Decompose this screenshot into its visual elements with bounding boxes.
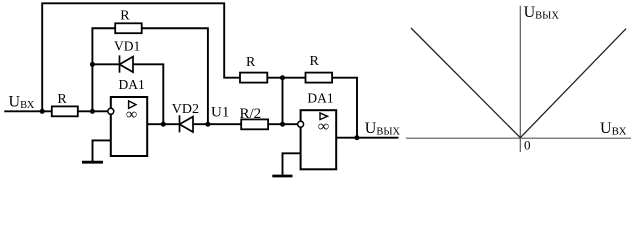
graph transfer characteristic left arm [411,28,520,138]
svg-text:DA1: DA1 [307,90,333,105]
svg-text:R: R [57,92,67,107]
svg-text:∞: ∞ [126,106,137,123]
wire input from Uvx label to resistor R [4,110,52,112]
svg-text:R/2: R/2 [240,106,262,122]
wire R/2 to inverting input bubble of DA1 right [268,123,297,125]
node junction U1 [205,122,210,127]
wire input resistor to inverting input bubble of DA1 left [78,110,108,112]
node junction VD1 tap [90,62,95,67]
wire op-amp1 output to VD2 cathode [147,123,179,125]
node junction at input [40,109,45,114]
resistor R input [52,92,78,116]
svg-text:R: R [246,55,256,70]
svg-text:VD2: VD2 [172,102,199,117]
node junction summing input DA1 right [280,122,285,127]
svg-text:∞: ∞ [318,118,329,135]
svg-text:0: 0 [524,137,531,152]
svg-text:VD1: VD1 [114,38,140,53]
node junction between R3 and R4 [280,75,285,80]
graph horizontal axis [406,137,631,139]
ground of DA1 left [82,161,103,164]
wire summing riser down to inverting node of DA1 right [282,78,284,125]
graph vertical axis [519,6,521,152]
graph transfer characteristic right arm [520,29,626,138]
svg-text:R: R [120,9,130,24]
ground of DA1 right [272,175,292,178]
wire riser from inverting node up to feedback resistor R [92,28,115,111]
wire VD1 anode across and down to op-amp1 output wire [133,64,163,124]
wire non-inverting input of DA1 left down to ground [93,140,111,161]
node junction op-amp1 output [161,122,166,127]
wire feedforward: input node up over the top and down to resistor R3 [42,3,240,111]
op-amp DA1 right [298,110,337,169]
diode VD2 [180,115,194,132]
svg-text:U1: U1 [211,104,229,120]
wire VD2 anode to resistor R/2 [193,123,241,125]
wire non-inverting input of DA1 right down to ground [283,153,301,175]
resistor R feedback over VD1 [115,9,142,33]
resistor R feedback of DA1 right [306,54,333,83]
resistor R from feedforward wire [240,55,267,82]
wire op-amp2 output to Uvyh [336,137,398,139]
wire between R3 and R4 [267,77,305,79]
wire R4 right side down to output node [332,78,357,138]
wire feedback resistor R right side across and down to node U1 [142,28,208,124]
svg-text:DA1: DA1 [119,77,145,92]
node junction inverting input DA1 left [90,109,95,114]
resistor R/2 [240,106,269,130]
diode VD1 [120,55,134,72]
svg-text:R: R [310,54,320,69]
wire inverting node to VD1 cathode bar [92,63,119,65]
node junction output feedback [354,135,359,140]
op-amp DA1 left [108,97,147,156]
